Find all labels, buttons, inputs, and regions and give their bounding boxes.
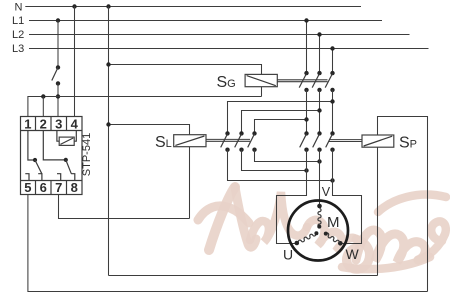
coil SL diagonal — [175, 136, 204, 145]
watermark signature stroke 9 (upper right band) — [378, 195, 446, 212]
linkage SG mechanical link — [277, 79, 327, 81]
wire SL coil return to terminal 7 — [59, 195, 190, 219]
coil SG — [245, 74, 277, 86]
contact tick terminal 5 — [25, 174, 29, 180]
contact SP pole 3 — [330, 131, 334, 135]
contact SL pole 3 — [252, 131, 256, 135]
wire SG coil bottom return to terminals — [28, 97, 262, 117]
svg-text:L3: L3 — [12, 43, 24, 55]
svg-text:L2: L2 — [12, 29, 24, 41]
wire SG pole2 output down — [319, 90, 321, 133]
wire crossover phase3 to SL pole1 — [228, 102, 333, 134]
coil SP diagonal — [364, 136, 393, 146]
wire crossover phase1 to SL pole3 — [255, 120, 307, 134]
watermark signature stroke 5 (cursive m humps) — [307, 220, 356, 251]
svg-text:W: W — [346, 246, 360, 262]
relay blade 1 — [35, 160, 42, 174]
terminal cell dividers top — [35, 117, 37, 131]
relay contact common 1 feed — [28, 131, 35, 161]
node L1 rail tap for SG — [304, 18, 308, 22]
node crossover junction phase2 — [317, 108, 321, 112]
wire SL pole2 output down — [242, 150, 307, 171]
svg-text:2: 2 — [40, 116, 47, 131]
coil SP — [362, 135, 394, 147]
relay coil stub from terminal 3 — [57, 130, 59, 141]
wire terminal 2 stub — [42, 97, 44, 117]
winding V — [318, 208, 321, 227]
svg-text:SL: SL — [155, 134, 172, 151]
wire L2 rail — [29, 34, 410, 36]
wire N drop to terminal 4 — [74, 7, 76, 117]
wire SP pole2 output to V — [319, 150, 321, 204]
relay coil stub from terminal 4 — [74, 130, 76, 141]
node merge V — [317, 159, 321, 163]
wire SP pole1 output to U — [277, 150, 307, 244]
svg-text:M: M — [327, 214, 340, 231]
node winding V inner end — [317, 225, 321, 229]
linkage SP mechanical link — [329, 139, 362, 141]
linkage SL mechanical link — [206, 138, 250, 140]
switch Q1 blade — [52, 67, 58, 80]
relay contact common 2 feed — [43, 131, 66, 160]
watermark signature stroke 6 (descender loop) — [346, 239, 369, 269]
wire SG pole1 output down — [306, 90, 308, 133]
wire N branch to SL coil — [109, 125, 190, 219]
node L1 tap — [56, 18, 60, 22]
node main switch upper contact — [56, 65, 60, 69]
wire N rail — [25, 6, 361, 8]
wire N main vertical drop — [108, 7, 110, 276]
relay STP-541 body — [21, 117, 83, 195]
contact tick terminal 8 — [71, 174, 75, 180]
svg-text:4: 4 — [71, 116, 79, 131]
node N main drop junction — [106, 4, 110, 8]
wire N bottom run to SP coil — [109, 275, 378, 277]
svg-text:3: 3 — [55, 116, 62, 131]
node merge U — [304, 168, 308, 172]
contact SG pole 3 — [330, 71, 334, 75]
contact tick terminal 6 — [38, 174, 42, 180]
node motor W terminal — [338, 241, 343, 246]
svg-text:U: U — [283, 247, 293, 263]
contact SG pole 2 — [317, 71, 321, 75]
relay bottom terminal strip divider — [21, 180, 83, 182]
node main switch lower contact — [56, 81, 60, 85]
svg-text:STP-541: STP-541 — [81, 133, 93, 176]
wire terminal 5 bottom run to SP — [28, 195, 428, 292]
node winding U inner end — [314, 231, 318, 235]
svg-text:8: 8 — [71, 180, 78, 195]
wire L3 rail — [29, 48, 429, 50]
wire SL pole3 output down — [255, 150, 320, 162]
relay coil K1 — [59, 137, 74, 145]
svg-text:5: 5 — [24, 180, 31, 195]
watermark signature stroke 4 (cursive n l e) — [250, 192, 307, 242]
wire L1 drop to SG contact 1 — [306, 21, 308, 74]
wire SP loop top edge — [378, 117, 428, 292]
wire switch to terminal 3 — [57, 83, 59, 116]
node motor U terminal — [295, 241, 300, 246]
terminal cell dividers bottom — [35, 181, 37, 195]
coil SG diagonal — [247, 76, 276, 86]
svg-text:6: 6 — [40, 180, 47, 195]
wire L1 drop to main switch — [57, 21, 59, 68]
wire L2 drop to SG contact 2 — [319, 35, 321, 74]
node relay pivot 2 — [64, 158, 68, 162]
relay top terminal strip divider — [21, 130, 83, 132]
node terminal bus t3 — [56, 94, 60, 98]
svg-text:1: 1 — [24, 116, 31, 131]
winding W — [325, 232, 340, 244]
coil SL — [174, 135, 206, 147]
watermark signature stroke 10 (bottom sweep) — [342, 257, 430, 269]
svg-text:L1: L1 — [12, 15, 24, 27]
motor M1 stator circle — [288, 201, 348, 261]
relay blade 2 — [66, 160, 72, 174]
contact SP pole 2 — [317, 131, 321, 135]
watermark signature stroke 8 (right tail hook) — [418, 221, 446, 260]
wire SP pole3 output to W — [333, 150, 362, 244]
wire crossover phase2 to SL pole2 — [242, 111, 320, 134]
contact tick terminal 7 — [57, 174, 61, 180]
node merge W — [330, 178, 334, 182]
watermark signature stroke 7 (right arches mn) — [356, 230, 425, 262]
node crossover junction phase3 — [330, 99, 334, 103]
svg-text:SP: SP — [399, 135, 417, 152]
node motor V terminal — [317, 204, 322, 209]
contact SL pole 1 — [225, 131, 229, 135]
svg-text:N: N — [15, 2, 23, 14]
contact SL pole 2 — [239, 131, 243, 135]
node crossover junction phase1 — [304, 117, 308, 121]
svg-text:SG: SG — [217, 74, 236, 91]
wire L3 drop to SG contact 3 — [332, 49, 334, 74]
watermark signature stroke 3 (A crossbar sweep) — [198, 206, 249, 223]
node terminal bus t2 — [41, 94, 45, 98]
node N branch junction — [106, 122, 110, 126]
watermark signature stroke 2 (big A right leg) — [235, 187, 256, 247]
contact SG pole 1 — [304, 71, 308, 75]
node N to S1 feeder junction — [72, 4, 76, 8]
node SG top feed junction — [106, 62, 110, 66]
wire SL pole1 output down — [228, 150, 333, 181]
wire SG coil top feed from N — [109, 65, 262, 97]
node L3 rail tap for SG — [330, 46, 334, 50]
watermark signature stroke 1 (big A left leg) — [209, 187, 235, 250]
node winding W inner end — [324, 232, 328, 236]
wire L1 rail — [29, 20, 382, 22]
node relay pivot 1 — [33, 158, 37, 162]
contact SP pole 1 — [304, 131, 308, 135]
svg-text:V: V — [322, 185, 331, 199]
winding U — [298, 232, 317, 244]
wire SG pole3 output down — [332, 90, 334, 133]
wire SP coil left edge lower — [377, 147, 379, 275]
svg-text:7: 7 — [55, 180, 62, 195]
relay coil K1 diagonal — [60, 138, 73, 144]
node L2 rail tap for SG — [317, 32, 321, 36]
